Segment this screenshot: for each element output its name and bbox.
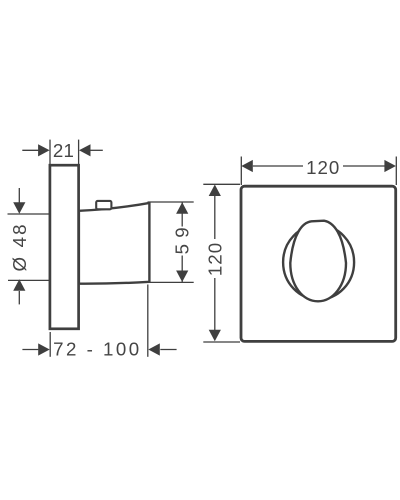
svg-text:59: 59 [171,221,192,254]
svg-text:72 - 100: 72 - 100 [53,339,142,360]
svg-text:21: 21 [53,140,74,161]
svg-text:Ø 48: Ø 48 [9,222,30,271]
svg-text:120: 120 [306,157,340,178]
svg-text:120: 120 [204,242,225,276]
